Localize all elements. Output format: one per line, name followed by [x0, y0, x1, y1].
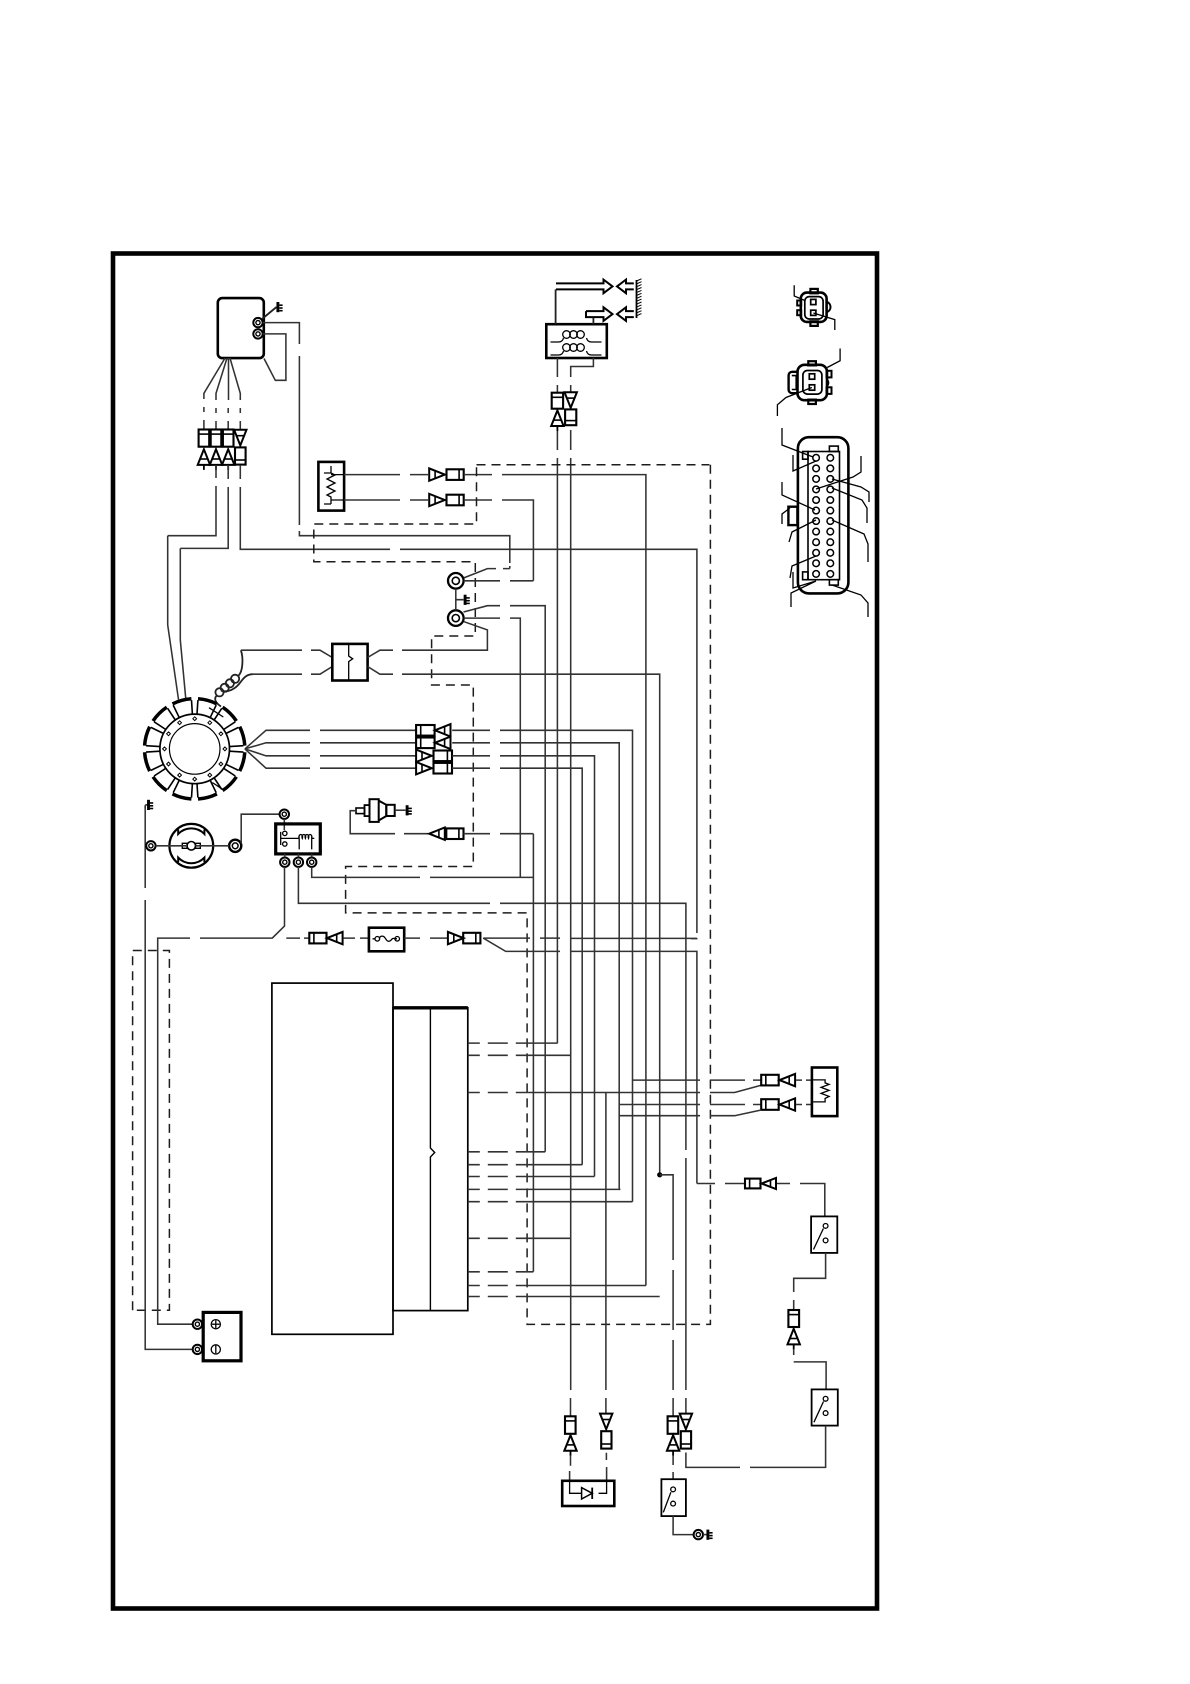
wire fuse to connector2 — [404, 937, 448, 939]
diode element — [570, 1481, 607, 1499]
stator connector row2 female — [416, 738, 435, 749]
bottom pair3 right female — [681, 1431, 691, 1448]
wire trim row1 to box — [796, 1079, 812, 1081]
C1 leader lines — [794, 285, 835, 330]
wire trailer connector to switch1 — [777, 1184, 825, 1217]
wire lower ring right — [464, 618, 521, 877]
coil connector left male — [551, 410, 563, 431]
fuse box — [369, 928, 404, 952]
wire rectifier row1 — [344, 474, 428, 476]
fuse element — [373, 936, 398, 941]
C2 leader lines — [777, 349, 840, 417]
wire ECU row 4 — [468, 1151, 545, 1153]
wire battery negative to starter — [156, 845, 187, 847]
CDI output fan wires — [204, 358, 225, 429]
stator connector row1 male — [435, 724, 451, 736]
trailer switch 2 — [812, 1389, 838, 1425]
trim connector row1 male — [780, 1074, 796, 1086]
wire coil conn right down to bottom pair1 — [570, 430, 572, 1416]
wire stator row3 to bus — [452, 756, 594, 1177]
wire coil conn left down to ECU row1 — [556, 431, 558, 1043]
starter motor — [169, 824, 213, 868]
wire pair1 to diode box — [569, 1456, 572, 1481]
wire between rings with ground tap — [456, 589, 464, 611]
ECU case — [272, 983, 393, 1334]
ignition coil box — [546, 324, 607, 358]
starter relay contacts — [281, 831, 300, 846]
thermo connector male — [429, 828, 445, 840]
HT arrow pair 2 right half — [586, 307, 613, 321]
ring terminal starter right — [229, 840, 241, 852]
feed connector2 female — [463, 933, 480, 944]
trailer connector male — [762, 1178, 777, 1189]
dashed battery cable boundary — [133, 951, 170, 1311]
ground symbol thermo — [407, 805, 412, 815]
rectifier connector row1 male — [429, 468, 445, 480]
thermo connector female — [446, 828, 463, 839]
wire thermo loop to connector — [350, 811, 428, 834]
wire ECU row 6 — [468, 1176, 595, 1178]
wire pair2 to diode box — [605, 1453, 607, 1481]
wire thermo drop — [532, 834, 534, 1272]
wire ECU row 7 — [468, 1188, 621, 1190]
wire ECU row 2 — [468, 1054, 571, 1056]
ECU connector housing — [393, 1008, 468, 1311]
rectifier connector row2 male — [429, 494, 445, 506]
wire relay B down — [298, 867, 686, 1414]
ground symbol left — [145, 800, 153, 810]
HT arrow pair 2 left half — [617, 307, 634, 321]
diode box — [562, 1481, 614, 1506]
stator connector row3 female — [434, 751, 453, 762]
wire pulser to joint connector top — [241, 650, 332, 657]
stator output fan — [245, 730, 416, 749]
joint connector box — [332, 644, 367, 681]
ring terminal relay top — [280, 810, 289, 819]
CDI connector column 3 female — [223, 430, 234, 447]
wire ECU row 5 — [468, 1164, 582, 1166]
wire ECU row 12 — [468, 1296, 660, 1298]
wire coil bottom right — [571, 358, 594, 392]
CDI connector column 4 female — [235, 447, 246, 464]
rectifier connector row1 female — [447, 469, 464, 480]
wire stator row2 to bus — [452, 743, 619, 1190]
battery ring terminal positive — [193, 1320, 202, 1329]
wire coil to HT arrow 1 — [555, 289, 557, 324]
main feed upper continuation — [483, 937, 697, 939]
flywheel magneto outer poles — [145, 699, 245, 799]
flywheel lead cut SE — [212, 783, 222, 790]
dashed harness boundary — [314, 465, 711, 1325]
starter relay coil — [299, 834, 314, 849]
rectifier connector row2 female — [447, 495, 464, 506]
battery minus symbol — [211, 1345, 220, 1354]
wire joint connector right top — [368, 622, 488, 658]
junction dot — [657, 1172, 662, 1177]
connector C1 (2-pin) — [797, 289, 830, 326]
coil connector right male — [565, 392, 577, 408]
CDI connector column 3 male — [222, 449, 234, 470]
wire thermo to ground — [395, 809, 406, 811]
wire stator row4 to bus — [452, 768, 582, 1164]
wire coil bottom left — [556, 358, 558, 392]
wire upper ring right — [464, 580, 534, 582]
CDI unit — [218, 298, 264, 358]
wire ECU row 3 — [468, 1085, 761, 1092]
bottom pair2 female — [601, 1431, 611, 1448]
wire connector to fuse — [343, 937, 369, 939]
wire ECU row 1 — [468, 1042, 558, 1044]
ignition coil primary winding — [551, 338, 602, 342]
rectifier resistor — [327, 466, 335, 504]
ring terminal upper (ground) — [448, 573, 464, 589]
wire relay C down — [312, 867, 534, 877]
CDI terminal ring lower — [253, 329, 262, 338]
bottom pair3 left female — [668, 1416, 679, 1434]
thermo switch body — [356, 799, 395, 822]
wire lower ring diagonal up-right — [464, 606, 546, 1152]
relay ring terminal B — [294, 858, 303, 867]
wire trim row2 to box — [796, 1104, 812, 1106]
stator connector row2 male — [435, 737, 451, 749]
wire ECU row 10 — [468, 1271, 534, 1273]
wire trailer feed — [697, 1183, 745, 1185]
trim sender box — [812, 1068, 837, 1117]
flywheel pole slots — [146, 700, 243, 797]
ground symbol bottom — [703, 1530, 713, 1540]
flywheel lead cut NE — [209, 708, 223, 717]
ring terminal lower (pulser) — [448, 610, 464, 626]
connector C3 (24-pin) — [788, 437, 848, 593]
flywheel inner ring — [169, 724, 220, 775]
feed connector2 male — [448, 932, 464, 944]
wire switch2 to bottom run — [686, 1426, 826, 1468]
ground ring terminal — [694, 1530, 703, 1539]
wire trim row2 — [619, 1104, 761, 1106]
rectifier leads — [324, 473, 344, 504]
relay terminal stubs — [285, 854, 312, 858]
trim sender resistor — [812, 1080, 829, 1102]
pulser coil — [215, 650, 242, 706]
stator connector row4 male — [416, 762, 432, 774]
trailer connector female — [745, 1179, 761, 1189]
spark gap comb hatching — [637, 279, 642, 318]
trailer pair male — [788, 1329, 800, 1350]
CDI terminal ring upper — [253, 318, 262, 327]
connector C2 (3-pin) — [789, 361, 832, 404]
wire ECU row 11 — [468, 1285, 646, 1287]
stator connector row4 female — [434, 763, 453, 774]
joint connector contact — [349, 644, 353, 681]
wire pair3 left to main switch — [672, 1456, 674, 1479]
HT arrow pair 1 right half — [556, 280, 613, 294]
wire relay A to battery positive — [158, 867, 285, 1324]
CDI connector column 1 female — [199, 430, 210, 447]
wire c4 down-right main feed — [240, 465, 697, 939]
wire ECU row 8 — [468, 1201, 633, 1203]
wire pulser to joint connector bottom — [253, 667, 332, 675]
battery ring terminal negative — [193, 1345, 202, 1354]
wire thermo connector to bus — [464, 833, 534, 835]
wire left ground down to battery negative — [145, 806, 193, 1349]
stator connector row3 male — [416, 750, 432, 762]
wire switch1 to pair — [794, 1253, 826, 1310]
ignition coil secondary winding — [551, 351, 602, 355]
main feed wire battery to fuse — [286, 937, 309, 939]
CDI ground lead — [262, 302, 283, 319]
wire rectifier row2 — [344, 499, 428, 501]
wire stator row1 to bus — [452, 730, 632, 1201]
stator connector row1 female — [416, 725, 435, 736]
main switch box — [661, 1479, 686, 1516]
wire junction branch to main switch — [660, 1175, 673, 1416]
wire c2 down-left — [168, 465, 216, 700]
bottom pair2 male — [600, 1414, 612, 1430]
wire starter to ring — [196, 845, 229, 847]
flywheel stud diamonds — [163, 717, 227, 781]
CDI connector column 1 male — [198, 449, 210, 470]
battery plus symbol — [211, 1320, 220, 1329]
bottom pair1 female — [565, 1416, 576, 1434]
wire main switch to ground ring — [673, 1516, 693, 1535]
CDI connector column 4 male — [234, 430, 246, 446]
main feed split diagonal — [483, 938, 697, 1183]
trim connector row1 female — [761, 1075, 779, 1086]
wire CDI upper terminal diagonal to ring — [464, 566, 510, 578]
wire ECU row 9 — [468, 1237, 571, 1239]
wire c3 down-left — [180, 465, 228, 699]
border frame — [113, 254, 877, 1609]
wire rectifier row2 to bus — [464, 500, 534, 581]
feed connector male — [327, 932, 343, 944]
feed connector female — [309, 933, 326, 944]
relay ring terminal C — [307, 858, 316, 867]
wire CDI upper terminal to right bus — [263, 323, 510, 563]
trailer switch 1 — [811, 1216, 837, 1253]
bottom pair3 left male — [667, 1435, 679, 1456]
starter relay box — [276, 824, 321, 854]
coil connector right female — [565, 409, 576, 425]
wire rectifier row1 to bus — [464, 475, 646, 1286]
ring terminal starter left — [146, 841, 155, 850]
CDI connector column 2 male — [210, 449, 222, 470]
wire trim row2 lower — [619, 1110, 761, 1116]
relay ring terminal A — [280, 858, 289, 867]
wire coil to HT arrow 2 — [592, 317, 594, 324]
wire CDI lower terminal hook — [263, 334, 286, 380]
wire ECU row3 drop to diode pair — [605, 1093, 607, 1414]
CDI connector column 2 female — [211, 430, 222, 447]
trim connector row2 male — [780, 1098, 796, 1110]
HT arrow pair 1 left half — [617, 280, 634, 294]
coil connector left female — [552, 393, 563, 409]
trailer pair female — [788, 1310, 799, 1327]
bottom pair1 male — [564, 1435, 576, 1456]
rectifier box — [318, 462, 344, 511]
wire joint connector right bottom — [368, 667, 660, 1175]
flywheel middle ring — [160, 714, 230, 784]
wire relay top ring to relay — [283, 819, 285, 830]
trim connector row2 female — [761, 1099, 779, 1110]
C3 leader lines — [782, 428, 869, 617]
battery box — [203, 1312, 241, 1360]
wire pair to switch2 — [794, 1349, 826, 1389]
ground symbol between rings — [465, 595, 470, 605]
wire trim row1 — [633, 1079, 762, 1081]
bottom pair3 right male — [680, 1414, 692, 1430]
wire starter ring up to relay ring — [241, 814, 279, 843]
